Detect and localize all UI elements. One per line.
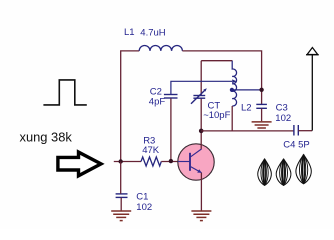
- svg-text:102: 102: [136, 202, 152, 213]
- wire: L2 bottom lead: [231, 106, 233, 131]
- svg-text:L1: L1: [124, 27, 135, 38]
- svg-text:xung 38k: xung 38k: [20, 130, 73, 145]
- ground under C3: [252, 122, 272, 128]
- wave doodle 3: [296, 155, 311, 184]
- svg-text:4pF: 4pF: [149, 97, 166, 108]
- inductor L2: [232, 61, 236, 106]
- wire: collector up to tank: [200, 131, 202, 149]
- svg-text:C4 5P: C4 5P: [283, 140, 309, 151]
- antenna: [311, 55, 313, 131]
- wire: CT branch vertical: [200, 61, 202, 131]
- wire: C2 tap line to L2: [171, 81, 232, 94]
- svg-text:47K: 47K: [142, 145, 160, 156]
- svg-text:102: 102: [275, 113, 291, 124]
- svg-text:4.7uH: 4.7uH: [140, 28, 165, 39]
- wave doodle 1: [258, 159, 272, 185]
- pulse symbol: [43, 80, 86, 105]
- wire: top rail from L1 to C3 branch: [182, 51, 261, 104]
- ground under emitter: [191, 211, 211, 221]
- wire: input stub and base rail: [114, 161, 141, 163]
- capacitor C4: [294, 125, 298, 136]
- svg-text:C1: C1: [136, 192, 148, 203]
- node: tap junction: [259, 88, 263, 92]
- wire: bottom rail from tank junction to C4: [201, 130, 294, 132]
- svg-text:C3: C3: [276, 102, 288, 113]
- capacitor CT (variable): [191, 90, 205, 104]
- svg-text:~10pF: ~10pF: [203, 110, 230, 121]
- capacitor C1: [116, 194, 128, 198]
- ground under C1: [111, 211, 131, 221]
- wire: R3 to transistor base: [161, 161, 178, 163]
- node: R3 right junction: [169, 159, 173, 163]
- wire: L2 tap to C3 branch: [232, 89, 261, 91]
- wire: C1 to ground stem: [120, 198, 122, 211]
- node: collector/tank junction: [199, 129, 204, 134]
- capacitor C3: [256, 104, 267, 108]
- capacitor C2: [164, 95, 178, 99]
- node: L2 tap junction: [230, 88, 234, 92]
- node: base junction (input): [119, 159, 123, 163]
- wire: tank top rail: [201, 60, 232, 62]
- inductor L1: [139, 46, 182, 51]
- input block arrow: [58, 152, 101, 176]
- transistor Q1: [178, 144, 214, 180]
- wire: C2 bottom lead down to base junction: [170, 98, 172, 161]
- wire: left riser from L1 down to base junction: [121, 51, 140, 162]
- wire: C3 to ground stem: [261, 109, 263, 122]
- wire: emitter down to ground: [200, 173, 202, 211]
- wire: junction down to C1: [120, 162, 122, 194]
- svg-text:L2: L2: [241, 103, 252, 114]
- wire: C4 to antenna riser: [298, 130, 312, 132]
- resistor R3: [141, 157, 161, 166]
- wave doodle 2: [276, 159, 291, 185]
